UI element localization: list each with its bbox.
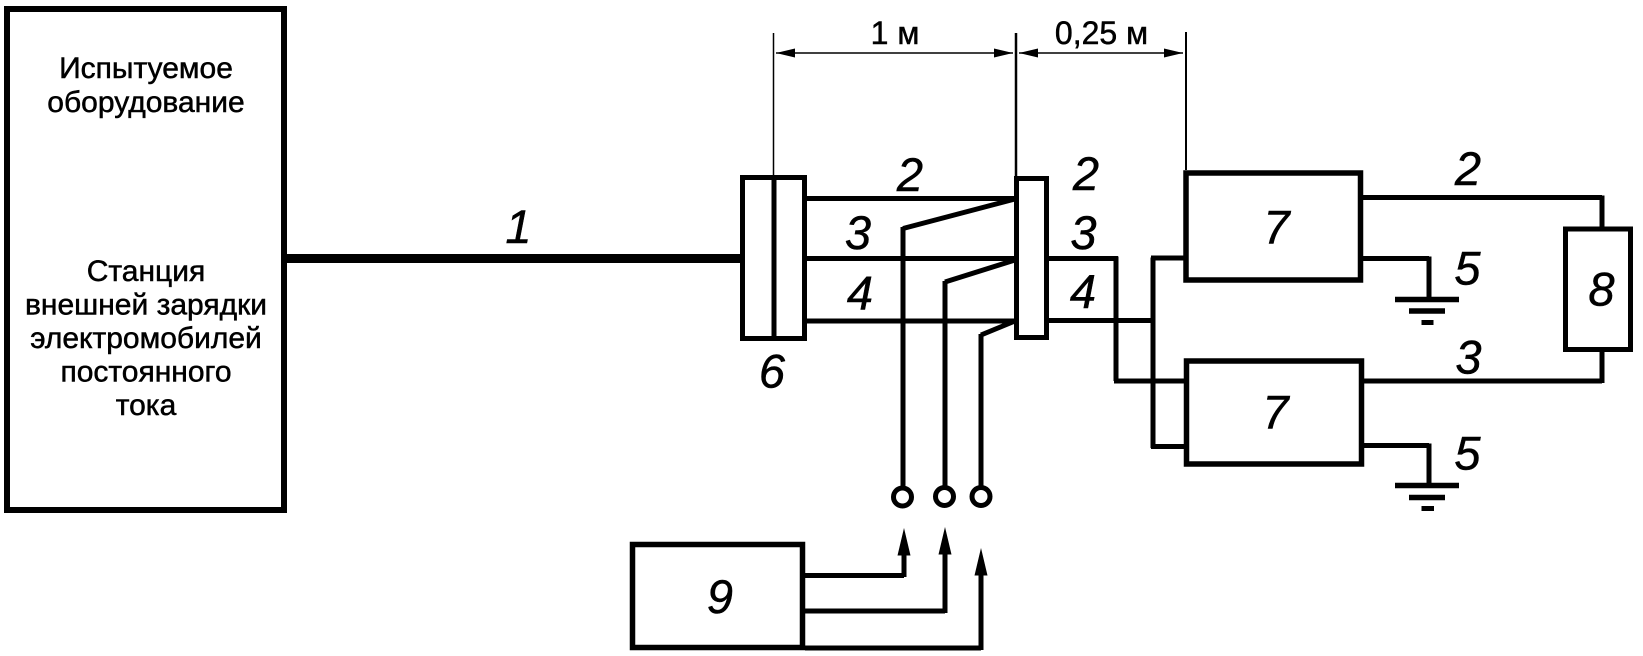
svg-text:9: 9 <box>707 570 733 623</box>
bus stub to upper CDN <box>1151 256 1186 261</box>
measurement arrow 3: vertical shaft <box>979 570 984 650</box>
svg-text:1: 1 <box>505 200 531 253</box>
measurement arrow 1: horizontal <box>805 573 904 578</box>
vertical bus between CDNs <box>1151 258 1156 449</box>
connector 6 (mating connector pair) <box>743 175 805 341</box>
svg-text:3: 3 <box>845 206 871 259</box>
svg-text:4: 4 <box>847 267 873 320</box>
svg-text:1 м: 1 м <box>871 15 920 51</box>
wire 2 (between connectors) <box>805 196 1014 201</box>
svg-text:5: 5 <box>1454 427 1481 480</box>
measurement arrow 3: head <box>975 548 988 576</box>
probe tap diagonal for wire 4 <box>981 321 1015 335</box>
wire 3 (between connectors) <box>805 256 1014 261</box>
ground lead lower: horizontal <box>1364 443 1429 448</box>
measurement arrow 2: vertical shaft <box>943 550 948 613</box>
svg-text:6: 6 <box>759 345 786 398</box>
wire 3 to load: vertical into box 8 <box>1600 351 1605 383</box>
monitoring point circle 2 <box>936 488 954 506</box>
monitoring point circle 1 <box>894 488 912 506</box>
svg-text:0,25 м: 0,25 м <box>1055 15 1148 51</box>
ground symbol lower <box>1395 486 1459 509</box>
monitoring point circle 3 <box>972 488 990 506</box>
svg-text:3: 3 <box>1455 331 1481 384</box>
wire 1 (thick charging cable) <box>287 254 742 263</box>
probe lead 2 (vertical) <box>943 281 948 486</box>
svg-text:тока: тока <box>116 389 177 422</box>
measurement arrow 1: vertical shaft <box>902 550 907 577</box>
measurement arrow 2: horizontal <box>805 609 945 614</box>
wire 3 to load: horizontal <box>1364 379 1602 384</box>
extension line middle (at connector 2 plane) <box>1015 33 1018 176</box>
EUT box (Испытуемое оборудование / Станция внешней зарядки) <box>7 9 284 510</box>
measurement arrow 1: head <box>898 528 911 556</box>
svg-text:Станция: Станция <box>87 255 206 288</box>
probe lead 1 (vertical) <box>901 227 906 486</box>
svg-text:5: 5 <box>1454 242 1481 295</box>
wire 3 run: horizontal into lower CDN <box>1114 379 1186 384</box>
wire 3 run: vertical step down <box>1114 257 1119 382</box>
probe lead 3 (vertical) <box>979 334 984 486</box>
svg-text:7: 7 <box>1263 201 1291 254</box>
svg-text:4: 4 <box>1070 265 1096 318</box>
load box 8 <box>1566 229 1631 350</box>
wire 4 (between connectors) <box>805 319 1014 324</box>
CDN box 7 (upper) <box>1186 173 1361 280</box>
connector 2 (test plane connector) <box>1017 179 1047 338</box>
wire 2 to load: horizontal <box>1363 195 1602 200</box>
probe tap diagonal for wire 3 <box>945 260 1015 282</box>
svg-text:7: 7 <box>1262 386 1290 439</box>
CDN box 7 (lower) <box>1187 361 1362 464</box>
svg-text:внешней зарядки: внешней зарядки <box>25 289 267 322</box>
extension line left (at connector 6 plane) <box>773 33 775 175</box>
dimension 1 m <box>776 15 1013 58</box>
ground lead lower: vertical <box>1427 444 1432 486</box>
svg-text:Испытуемое: Испытуемое <box>59 52 233 85</box>
svg-text:электромобилей: электромобилей <box>30 322 262 355</box>
probe tap diagonal for wire 2 <box>903 199 1015 229</box>
svg-text:3: 3 <box>1070 206 1096 259</box>
wire 3 run to CDNs: horizontal <box>1049 256 1118 261</box>
svg-text:8: 8 <box>1588 263 1614 316</box>
svg-text:оборудование: оборудование <box>47 86 244 119</box>
measurement arrow 2: head <box>939 527 952 555</box>
measurement arrow 3: horizontal <box>805 646 981 651</box>
svg-text:2: 2 <box>1454 142 1481 195</box>
extension line right (at CDN box plane) <box>1185 32 1187 170</box>
bus stub to lower CDN <box>1151 444 1186 449</box>
ground lead upper: horizontal <box>1363 256 1429 261</box>
svg-text:2: 2 <box>896 148 923 201</box>
svg-text:постоянного: постоянного <box>60 356 231 389</box>
wire 2 to load: vertical into box 8 <box>1600 196 1605 228</box>
svg-text:2: 2 <box>1072 147 1099 200</box>
ground lead upper: vertical <box>1427 257 1432 300</box>
wire 4 run to bus <box>1049 318 1155 323</box>
dimension 0,25 m <box>1019 15 1183 58</box>
ground symbol upper <box>1395 300 1459 323</box>
oscilloscope box 9 <box>633 545 803 648</box>
